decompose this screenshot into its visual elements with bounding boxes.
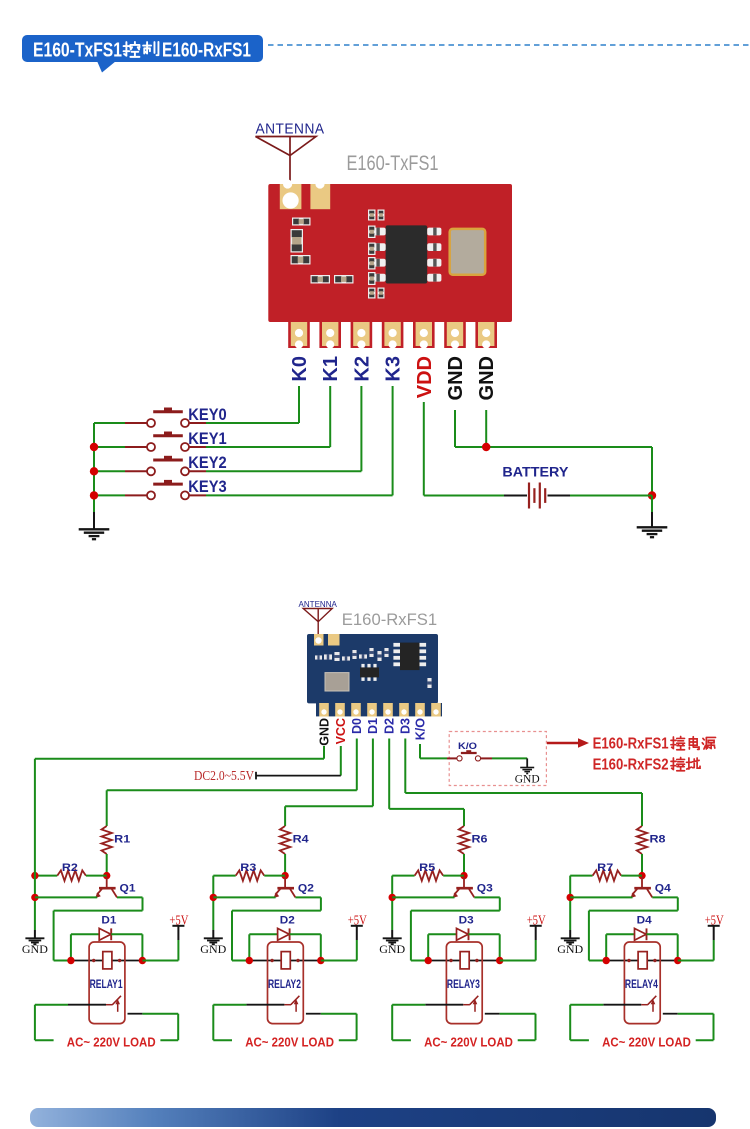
pushbutton KEY3 xyxy=(147,480,189,500)
power flag DC2.0~5.5V xyxy=(256,775,341,777)
wire D0 down xyxy=(356,739,358,791)
wire D2 down xyxy=(388,739,390,809)
wire collector left xyxy=(411,910,500,912)
wire KEY2 to K2 xyxy=(206,470,361,472)
wire KEY0 left green xyxy=(94,422,125,424)
wire switch right xyxy=(306,1013,321,1015)
svg-text:K0: K0 xyxy=(289,356,311,382)
wire R3 right lead xyxy=(264,875,285,877)
wire KEY1 left green xyxy=(94,446,125,448)
svg-text:GND: GND xyxy=(379,942,405,956)
wire VDD to battery xyxy=(424,495,504,497)
ground (battery) xyxy=(637,527,668,537)
wire +5V to coil xyxy=(500,960,536,962)
wire R7 left lead xyxy=(570,875,592,877)
wire coil left xyxy=(428,960,460,962)
wire gnd stub (K/O) xyxy=(526,758,528,767)
wire KEY1 left stub xyxy=(125,446,147,448)
svg-text:GND: GND xyxy=(445,356,467,400)
wire +5V to coil xyxy=(321,960,357,962)
junction coil left xyxy=(425,957,432,964)
junction coil right xyxy=(317,957,324,964)
wire KEY1 right stub xyxy=(189,446,206,448)
svg-text:ANTENNA: ANTENNA xyxy=(299,599,338,609)
svg-text:K1: K1 xyxy=(320,356,342,382)
wire key bus to ground xyxy=(93,505,95,517)
wire switch right xyxy=(485,1013,500,1015)
svg-text:R6: R6 xyxy=(472,834,488,846)
svg-text:Q3: Q3 xyxy=(477,883,493,895)
Tx crystal oscillator xyxy=(450,229,486,275)
wire coil right xyxy=(290,960,321,962)
title hanzi 控 xyxy=(124,42,140,57)
wire collector down 2 xyxy=(588,911,590,961)
wire collector down xyxy=(677,897,679,910)
wire R5 right lead xyxy=(443,875,464,877)
ground (circuit 2) xyxy=(204,938,223,944)
wire load left horizontal xyxy=(570,1004,603,1006)
wire KEY2 right stub xyxy=(189,470,206,472)
junction bus/R2 xyxy=(31,872,38,879)
svg-text:AC~ 220V LOAD: AC~ 220V LOAD xyxy=(424,1035,513,1050)
wire button to gnd xyxy=(492,757,527,759)
junction bus/emitter xyxy=(31,894,38,901)
wire KEY3 to K3 xyxy=(206,494,393,496)
wire load left vertical xyxy=(391,1005,393,1040)
wire diode right lead vertical xyxy=(677,934,679,960)
svg-text:GND: GND xyxy=(476,356,498,400)
svg-text:KEY2: KEY2 xyxy=(188,453,226,472)
wire VCC down xyxy=(340,746,342,776)
transistor Q4 xyxy=(630,877,652,898)
wire left bus vertical xyxy=(569,876,571,930)
wire collector to coil xyxy=(232,960,249,962)
wire R5 left lead xyxy=(392,875,414,877)
wire R1 top lead xyxy=(106,790,108,826)
wire emitter to bus xyxy=(570,896,632,898)
junction GND pins xyxy=(482,443,490,451)
wire diode left xyxy=(428,933,456,935)
svg-text:KEY1: KEY1 xyxy=(188,429,226,448)
resistor R1 xyxy=(102,826,112,854)
wire gnd stub xyxy=(569,930,571,938)
svg-text:VCC: VCC xyxy=(334,718,348,744)
svg-text:R1: R1 xyxy=(114,834,130,846)
svg-text:R4: R4 xyxy=(293,834,310,846)
pushbutton KEY0 xyxy=(147,408,189,428)
Tx SMD components xyxy=(292,218,311,226)
wire coil right xyxy=(112,960,142,962)
svg-text:GND: GND xyxy=(557,942,583,956)
wire GND(Rx) horizontal to bus xyxy=(35,758,324,760)
wire emitter to bus xyxy=(392,896,454,898)
svg-text:D3: D3 xyxy=(459,915,474,927)
junction coil left xyxy=(67,957,74,964)
wire switch right xyxy=(663,1013,678,1015)
relay switch contact xyxy=(425,1004,463,1006)
transistor Q1 xyxy=(95,877,117,898)
wire emitter to bus xyxy=(213,896,275,898)
svg-text:D4: D4 xyxy=(637,915,653,927)
svg-text:AC~ 220V LOAD: AC~ 220V LOAD xyxy=(245,1035,334,1050)
Tx pin pads xyxy=(291,322,307,346)
svg-text:E160-TxFS1: E160-TxFS1 xyxy=(347,152,439,175)
battery left lead xyxy=(504,495,527,497)
svg-text:D0: D0 xyxy=(350,718,364,734)
wire D1 down xyxy=(372,739,374,807)
wire VDD vertical xyxy=(423,402,425,496)
wire load bottom right xyxy=(160,1039,178,1041)
module E160-RxFS1 PCB body xyxy=(307,634,438,703)
resistor R2 xyxy=(57,870,86,880)
wire load bottom left xyxy=(392,1039,411,1041)
wire R2 left lead xyxy=(35,875,57,877)
svg-text:AC~ 220V LOAD: AC~ 220V LOAD xyxy=(602,1035,691,1050)
header dashed line xyxy=(268,44,750,46)
svg-text:D1: D1 xyxy=(101,915,116,927)
junction coil left xyxy=(246,957,253,964)
junction R8/R7/base xyxy=(638,872,645,879)
svg-text:Q1: Q1 xyxy=(120,883,136,895)
wire collector down xyxy=(499,897,501,910)
relay switch contact xyxy=(603,1004,641,1006)
Tx antenna pad 1 xyxy=(280,184,302,209)
wire coil left xyxy=(249,960,281,962)
svg-text:D3: D3 xyxy=(399,718,413,734)
svg-text:RELAY2: RELAY2 xyxy=(268,979,301,991)
wire key bus vertical xyxy=(93,423,95,512)
svg-text:KEY3: KEY3 xyxy=(188,477,226,496)
wire diode right lead vertical xyxy=(499,934,501,960)
wire K3 vertical xyxy=(392,386,394,495)
wire R8 bottom lead xyxy=(641,854,643,876)
wire coil right xyxy=(469,960,500,962)
bottom decorative bar xyxy=(30,1108,716,1127)
svg-text:R8: R8 xyxy=(650,834,666,846)
wire KEY2 left stub xyxy=(125,470,147,472)
wire gnd stub xyxy=(212,930,214,938)
wire KEY1 to K1 xyxy=(206,446,330,448)
wire load right vertical xyxy=(713,1014,715,1040)
ground (keys) xyxy=(79,529,110,539)
junction key bus xyxy=(90,491,98,499)
wire coil left xyxy=(71,960,103,962)
wire switch to load right xyxy=(142,1013,178,1015)
title banner tail xyxy=(97,61,116,73)
wire gnd bus (from Rx GND) xyxy=(34,759,36,930)
button right stub xyxy=(481,757,492,759)
wire K0 vertical xyxy=(298,386,300,423)
wire collector to coil xyxy=(54,960,71,962)
wire R3 left lead xyxy=(213,875,235,877)
wire collector down 2 xyxy=(53,911,55,961)
wire left bus vertical xyxy=(212,876,214,930)
wire switch to load right xyxy=(321,1013,357,1015)
annotation arrow xyxy=(547,742,581,745)
wire switch right xyxy=(128,1013,143,1015)
wire diode left lead vertical xyxy=(70,934,72,960)
wire collector down 2 xyxy=(410,911,412,961)
svg-text:D1: D1 xyxy=(366,718,380,734)
wire diode right lead vertical xyxy=(320,934,322,960)
wire D0 to R1 horizontal xyxy=(107,789,357,791)
wire load bottom left xyxy=(35,1039,54,1041)
resistor R3 xyxy=(236,870,265,880)
wire diode right xyxy=(111,933,142,935)
junction bus/emitter xyxy=(389,894,396,901)
Tx module castellated pin teeth xyxy=(288,320,310,348)
wire load left vertical xyxy=(212,1005,214,1040)
transistor Q2 xyxy=(273,877,295,898)
wire R4 top lead xyxy=(284,806,286,826)
svg-text:RELAY3: RELAY3 xyxy=(447,979,480,991)
title banner pill xyxy=(22,35,263,62)
ground (K/O) xyxy=(520,768,534,774)
ground (circuit 4) xyxy=(561,938,580,944)
antenna symbol (Rx) xyxy=(303,609,332,641)
ground (circuit 3) xyxy=(383,938,402,944)
junction coil right xyxy=(496,957,503,964)
junction coil left xyxy=(603,957,610,964)
wire R4 bottom lead xyxy=(284,854,286,876)
wire collector down xyxy=(320,897,322,910)
Tx IC U-chip xyxy=(386,225,428,283)
wire KEY0 right stub xyxy=(189,422,206,424)
resistor R6 xyxy=(459,826,469,854)
svg-text:E160-TxFS1: E160-TxFS1 xyxy=(33,40,122,62)
svg-text:D2: D2 xyxy=(280,915,295,927)
svg-text:R5: R5 xyxy=(419,862,435,874)
battery plates xyxy=(529,483,545,509)
Rx small IC xyxy=(360,667,379,677)
junction R1/R2/base xyxy=(103,872,110,879)
wire to ground stub black xyxy=(651,512,653,527)
svg-text:E160-RxFS2: E160-RxFS2 xyxy=(593,757,669,774)
wire K/O down xyxy=(419,744,421,758)
wire collector left xyxy=(589,910,678,912)
Rx pin pads xyxy=(319,703,329,717)
svg-text:D2: D2 xyxy=(383,718,397,734)
wire KEY0 to K0 xyxy=(206,422,299,424)
wire load right vertical xyxy=(356,1014,358,1040)
junction R6/R5/base xyxy=(460,872,467,879)
wire collector to coil xyxy=(411,960,428,962)
svg-text:AC~ 220V LOAD: AC~ 220V LOAD xyxy=(67,1035,156,1050)
wire switch to load right xyxy=(500,1013,536,1015)
button left stub xyxy=(447,757,457,759)
junction coil right xyxy=(674,957,681,964)
svg-text:VDD: VDD xyxy=(414,356,436,398)
wire load bottom right xyxy=(339,1039,357,1041)
wire to ground stub green xyxy=(651,496,653,516)
svg-text:E160-RxFS1: E160-RxFS1 xyxy=(162,40,251,62)
wire gnd stub xyxy=(391,930,393,938)
wire +5V to coil xyxy=(142,960,178,962)
svg-text:K/O: K/O xyxy=(413,718,427,741)
resistor R7 xyxy=(593,870,622,880)
wire diode left lead vertical xyxy=(427,934,429,960)
svg-text:RELAY4: RELAY4 xyxy=(625,979,658,991)
antenna symbol (Tx) xyxy=(256,137,317,200)
wire load right vertical xyxy=(177,1014,179,1040)
battery right lead xyxy=(548,495,571,497)
Rx antenna pads xyxy=(314,634,324,646)
svg-text:R3: R3 xyxy=(240,862,256,874)
wire diode left xyxy=(71,933,99,935)
resistor R5 xyxy=(415,870,444,880)
wire diode left xyxy=(606,933,634,935)
wire KEY3 left green xyxy=(94,494,125,496)
resistor R8 xyxy=(637,826,647,854)
junction key bus xyxy=(90,443,98,451)
pushbutton K/O xyxy=(457,750,481,761)
transistor Q3 xyxy=(452,877,474,898)
wire collector right xyxy=(117,896,143,898)
Rx SMDs xyxy=(315,655,322,660)
wire KEY0 left stub xyxy=(125,422,147,424)
svg-text:R7: R7 xyxy=(597,862,613,874)
wire GND down right xyxy=(651,447,653,496)
Tx antenna pad 2 xyxy=(310,184,330,209)
wire KEY3 left stub xyxy=(125,494,147,496)
svg-text:GND: GND xyxy=(22,942,48,956)
svg-text:E160-RxFS1: E160-RxFS1 xyxy=(593,736,669,753)
svg-text:GND: GND xyxy=(515,774,540,786)
wire K1 vertical xyxy=(329,386,331,447)
wire KEY2 left green xyxy=(94,470,125,472)
svg-text:GND: GND xyxy=(200,942,226,956)
wire load bottom left xyxy=(570,1039,589,1041)
wire collector left xyxy=(54,910,143,912)
wire K2 vertical xyxy=(360,386,362,471)
wire diode right xyxy=(290,933,321,935)
wire load left horizontal xyxy=(213,1004,246,1006)
wire D3 down xyxy=(404,739,406,794)
junction battery negative xyxy=(648,491,656,499)
svg-text:Q2: Q2 xyxy=(298,883,314,895)
wire collector right xyxy=(295,896,321,898)
Rx pin teeth xyxy=(316,703,442,716)
wire R7 right lead xyxy=(621,875,642,877)
svg-text:RELAY1: RELAY1 xyxy=(90,979,123,991)
junction key bus xyxy=(90,467,98,475)
wire K/O to button xyxy=(420,757,447,759)
wire R6 top lead xyxy=(463,809,465,826)
wire GND horizontal xyxy=(455,446,652,448)
ground (circuit 1) xyxy=(25,938,44,944)
wire R6 bottom lead xyxy=(463,854,465,876)
wire coil left xyxy=(606,960,638,962)
wire +5V to coil xyxy=(678,960,714,962)
svg-text:ANTENNA: ANTENNA xyxy=(256,122,325,138)
wire R8 top lead xyxy=(641,793,643,826)
wire collector left xyxy=(232,910,321,912)
wire load left horizontal xyxy=(35,1004,68,1006)
pushbutton KEY2 xyxy=(147,456,189,476)
wire collector right xyxy=(474,896,500,898)
wire D2 to R6 horizontal xyxy=(389,808,464,810)
pushbutton KEY1 xyxy=(147,432,189,452)
svg-text:BATTERY: BATTERY xyxy=(502,464,568,479)
svg-text:KEY0: KEY0 xyxy=(188,405,226,424)
Rx shield can xyxy=(325,673,349,691)
wire diode left lead vertical xyxy=(248,934,250,960)
wire diode left xyxy=(249,933,277,935)
title hanzi 制 xyxy=(143,42,158,55)
wire collector down 2 xyxy=(231,911,233,961)
wire load bottom right xyxy=(696,1039,714,1041)
relay switch contact xyxy=(68,1004,106,1006)
wire load right vertical xyxy=(535,1014,537,1040)
wire GND2 vertical xyxy=(485,410,487,447)
wire left bus vertical xyxy=(391,876,393,930)
wire collector down xyxy=(142,897,144,910)
wire load bottom left xyxy=(213,1039,232,1041)
wire diode right lead vertical xyxy=(141,934,143,960)
svg-text:K2: K2 xyxy=(351,356,373,382)
wire load left vertical xyxy=(569,1005,571,1040)
wire D1 to R4 horizontal xyxy=(285,805,373,807)
svg-text:DC2.0~5.5V: DC2.0~5.5V xyxy=(194,768,254,783)
resistor R4 xyxy=(280,826,290,854)
wire load bottom right xyxy=(518,1039,536,1041)
wire GND1 vertical xyxy=(454,410,456,447)
wire D3 to R8 horizontal xyxy=(405,792,642,794)
junction bus/emitter xyxy=(210,894,217,901)
relay switch contact xyxy=(246,1004,284,1006)
dashed option box xyxy=(449,732,546,786)
wire diode right xyxy=(469,933,500,935)
wire battery to junction xyxy=(570,495,652,497)
wire collector to coil xyxy=(589,960,606,962)
wire diode left lead vertical xyxy=(605,934,607,960)
svg-text:Q4: Q4 xyxy=(655,883,672,895)
svg-text:GND: GND xyxy=(317,718,331,746)
svg-text:K/O: K/O xyxy=(458,741,477,752)
wire emitter to bus xyxy=(35,896,97,898)
module E160-TxFS1 PCB body xyxy=(268,184,512,322)
wire load left horizontal xyxy=(392,1004,425,1006)
wire gnd stub xyxy=(34,930,36,938)
wire coil right xyxy=(647,960,678,962)
junction R4/R3/base xyxy=(281,872,288,879)
wire switch to load right xyxy=(678,1013,714,1015)
Rx big IC xyxy=(400,643,420,671)
wire KEY3 right stub xyxy=(189,494,206,496)
wire R1 bottom lead xyxy=(106,854,108,876)
wire load left vertical xyxy=(34,1005,36,1040)
svg-text:E160-RxFS1: E160-RxFS1 xyxy=(342,610,437,629)
svg-text:R2: R2 xyxy=(62,862,78,874)
wire R2 right lead xyxy=(86,875,107,877)
wire GND(Rx) down xyxy=(323,746,325,759)
svg-text:K3: K3 xyxy=(383,356,405,382)
wire diode right xyxy=(647,933,678,935)
junction bus/emitter xyxy=(567,894,574,901)
wire collector right xyxy=(652,896,678,898)
junction coil right xyxy=(139,957,146,964)
